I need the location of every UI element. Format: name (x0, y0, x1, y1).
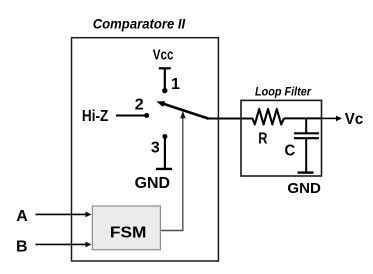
wire Hi-Z to node 2 (116, 115, 145, 117)
FSM control wire (161, 117, 183, 231)
FSM control arrowhead (180, 111, 185, 119)
svg-text:2: 2 (135, 97, 144, 114)
input A wire (36, 213, 87, 215)
input A arrowhead (86, 212, 92, 218)
resistor R (252, 109, 284, 124)
svg-text:R: R (258, 131, 268, 148)
svg-text:B: B (16, 238, 28, 255)
node 2 (144, 113, 149, 118)
capacitor C (294, 118, 319, 171)
node 3 (162, 134, 167, 139)
svg-text:GND: GND (135, 175, 170, 192)
svg-text:FSM: FSM (110, 225, 146, 242)
node 1 (162, 88, 167, 93)
svg-text:Hi-Z: Hi-Z (82, 108, 109, 125)
loop filter box (241, 100, 322, 176)
ground terminal (loop filter) (298, 171, 314, 173)
FSM box (92, 206, 160, 250)
switch arm SW1 (156, 101, 208, 119)
svg-text:C: C (285, 143, 296, 160)
svg-text:Loop Filter: Loop Filter (255, 86, 311, 98)
svg-text:Vcc: Vcc (153, 47, 174, 64)
Vcc terminal (159, 68, 171, 89)
comparator box (72, 38, 219, 261)
svg-text:Vc: Vc (345, 111, 363, 128)
output wire to Vc (322, 117, 337, 119)
svg-text:3: 3 (151, 139, 160, 156)
wire resistor to output (284, 117, 322, 119)
wire node 3 to ground (164, 139, 166, 169)
output arrowhead (336, 116, 342, 122)
svg-text:A: A (16, 208, 28, 225)
ground terminal (comparator) (156, 168, 172, 170)
wire switch pivot to resistor (208, 118, 253, 120)
svg-text:GND: GND (287, 180, 321, 197)
input B wire (36, 243, 87, 245)
svg-text:Comparatore II: Comparatore II (93, 17, 186, 32)
input B arrowhead (86, 242, 92, 248)
svg-text:1: 1 (171, 76, 180, 93)
